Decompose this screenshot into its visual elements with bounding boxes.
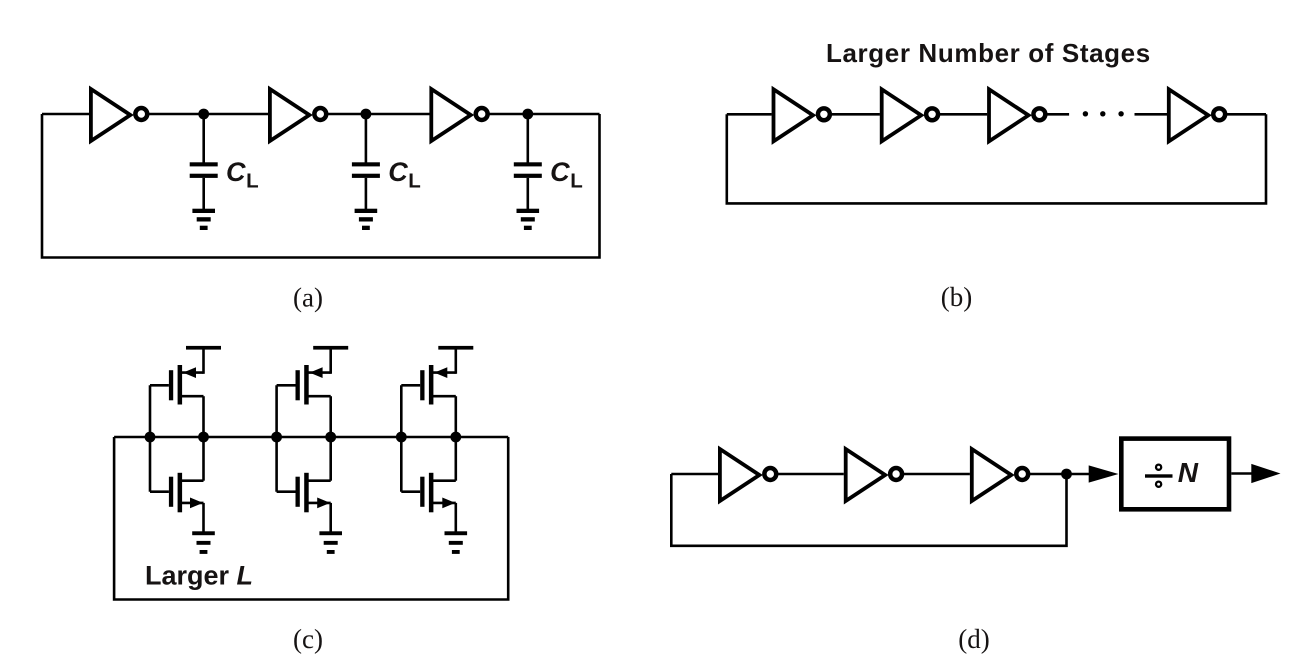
feedback loop wire (b) bbox=[727, 114, 1266, 203]
wire D3 output to divider bbox=[1029, 473, 1090, 476]
inverter A3 bbox=[431, 89, 487, 141]
wire B3 output bbox=[1047, 113, 1070, 116]
wire to inverter BN bbox=[1135, 113, 1168, 116]
capacitor C1 value label C_L bbox=[226, 157, 259, 193]
NMOS source down lead 3 bbox=[454, 503, 457, 533]
inverter A2 bbox=[270, 89, 326, 141]
wire B2 to B3 bbox=[939, 113, 987, 116]
divider block divide-by-N bbox=[1121, 439, 1229, 510]
VDD supply bar 1 bbox=[186, 346, 221, 374]
label (c) bbox=[293, 624, 323, 654]
output net line stage 3 bbox=[454, 396, 457, 481]
NMOS transistor MN2 bbox=[277, 473, 331, 513]
wire D1 to D2 bbox=[778, 473, 844, 476]
NMOS source down lead 1 bbox=[202, 503, 205, 533]
ground symbol 1 bbox=[192, 531, 215, 554]
capacitor C3 value label C_L bbox=[550, 157, 583, 193]
feedback loop wire (a) bbox=[42, 114, 600, 258]
ground symbol 2 bbox=[319, 531, 342, 554]
label N bbox=[1178, 457, 1199, 488]
feedback loop wire (c) bbox=[114, 437, 508, 600]
output net line stage 1 bbox=[202, 396, 205, 481]
capacitor C1 lead bbox=[202, 114, 205, 163]
capacitor C2 bbox=[352, 162, 380, 209]
output node dot 3 bbox=[450, 432, 461, 443]
inverter BN bbox=[1169, 89, 1225, 141]
svg-text:Larger L: Larger L bbox=[145, 561, 253, 591]
output node dot 2 bbox=[325, 432, 336, 443]
label Larger L bbox=[145, 561, 253, 591]
VDD supply bar 3 bbox=[438, 346, 473, 374]
wire A2 output to node bbox=[328, 113, 432, 116]
input node dot 1 bbox=[145, 432, 156, 443]
output wire from divider bbox=[1231, 472, 1253, 475]
title Larger Number of Stages bbox=[826, 38, 1151, 68]
NMOS transistor MN1 bbox=[150, 473, 204, 513]
PMOS transistor MP1 bbox=[150, 365, 204, 405]
input node dot 2 bbox=[271, 432, 282, 443]
node nd bbox=[1061, 469, 1072, 480]
inverter B3 bbox=[989, 89, 1045, 141]
inverter B2 bbox=[882, 89, 938, 141]
input net line stage 3 bbox=[400, 385, 403, 491]
divide symbol bbox=[1145, 465, 1173, 487]
input net line stage 1 bbox=[149, 385, 152, 491]
label (b) bbox=[941, 282, 972, 312]
svg-text:N: N bbox=[1178, 457, 1199, 488]
svg-text:L: L bbox=[246, 170, 259, 193]
svg-text:L: L bbox=[408, 170, 421, 193]
output arrow bbox=[1251, 464, 1280, 483]
NMOS transistor MN3 bbox=[401, 473, 456, 513]
svg-text:Larger Number of Stages: Larger Number of Stages bbox=[826, 38, 1151, 68]
node n3a bbox=[522, 109, 533, 120]
ground symbol 3 bbox=[445, 531, 468, 554]
wire input to inverter D1 bbox=[671, 473, 718, 476]
wire D2 to D3 bbox=[903, 473, 970, 476]
svg-text:(c): (c) bbox=[293, 624, 323, 654]
svg-text:(d): (d) bbox=[958, 624, 989, 654]
inverter B1 bbox=[774, 89, 830, 141]
svg-text:(b): (b) bbox=[941, 282, 972, 312]
label (a) bbox=[293, 282, 323, 312]
main horizontal wire (c) bbox=[114, 436, 508, 439]
input node dot 3 bbox=[396, 432, 407, 443]
inverter D1 bbox=[720, 449, 776, 501]
input net line stage 2 bbox=[275, 385, 278, 491]
capacitor C2 value label C_L bbox=[388, 157, 421, 193]
arrow into divider bbox=[1089, 465, 1119, 482]
wire input to inverter A1 bbox=[42, 113, 89, 116]
capacitor C2 lead bbox=[365, 114, 368, 163]
ellipsis dots bbox=[1083, 111, 1124, 116]
feedback loop wire (d) bbox=[671, 474, 1066, 546]
svg-text:C: C bbox=[550, 157, 570, 187]
capacitor C3 bbox=[514, 162, 542, 209]
svg-text:C: C bbox=[388, 157, 408, 187]
ground below C2 bbox=[355, 209, 378, 230]
svg-text:C: C bbox=[226, 157, 246, 187]
VDD supply bar 2 bbox=[313, 346, 348, 374]
inverter A1 bbox=[91, 89, 147, 141]
node n2a bbox=[361, 109, 372, 120]
ground below C3 bbox=[517, 209, 540, 230]
PMOS transistor MP2 bbox=[277, 365, 331, 405]
output net line stage 2 bbox=[329, 396, 332, 481]
NMOS source down lead 2 bbox=[329, 503, 332, 533]
capacitor C3 lead bbox=[526, 114, 529, 163]
svg-text:L: L bbox=[570, 170, 583, 193]
wire input to inverter B1 bbox=[727, 113, 772, 116]
wire A3 output to loop bbox=[489, 113, 600, 116]
PMOS transistor MP3 bbox=[401, 365, 456, 405]
inverter D3 bbox=[972, 449, 1028, 501]
wire BN output to loop bbox=[1226, 113, 1266, 116]
svg-text:(a): (a) bbox=[293, 282, 323, 312]
label (d) bbox=[958, 624, 989, 654]
inverter D2 bbox=[846, 449, 902, 501]
output node dot 1 bbox=[198, 432, 209, 443]
capacitor C1 bbox=[190, 162, 218, 209]
ground below C1 bbox=[192, 209, 215, 230]
node n1a bbox=[198, 109, 209, 120]
wire B1 to B2 bbox=[831, 113, 880, 116]
wire A1 output to node bbox=[148, 113, 269, 116]
